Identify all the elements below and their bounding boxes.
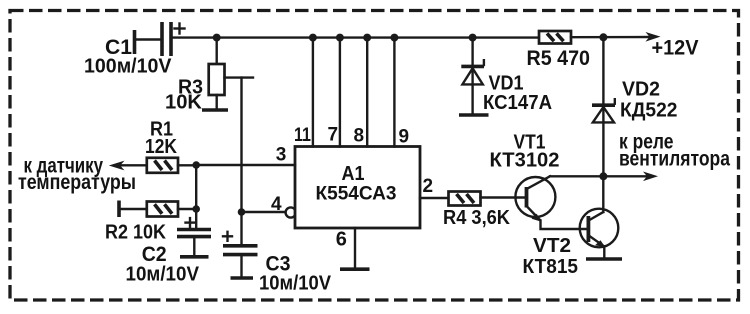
wire +12V rail right bbox=[571, 36, 649, 39]
node rail pin11 bbox=[309, 34, 317, 42]
label к реле вентилятора bbox=[619, 130, 730, 170]
svg-text:A1: A1 bbox=[342, 163, 365, 185]
node R2/C2 junction bbox=[192, 205, 200, 213]
transistor VT1 bbox=[515, 176, 555, 222]
svg-text:+12V: +12V bbox=[652, 37, 699, 60]
zener VD1 bbox=[461, 38, 484, 114]
svg-text:КС147А: КС147А bbox=[483, 92, 552, 114]
node pin4/C3 junction bbox=[238, 208, 246, 216]
capacitor C3 bbox=[223, 212, 258, 276]
svg-text:100м/10V: 100м/10V bbox=[84, 56, 172, 78]
R3 ground bbox=[202, 108, 228, 112]
pin 4 inversion circle bbox=[286, 207, 296, 217]
wire output line (collectors to relay) bbox=[550, 175, 649, 177]
node VD2/VT2 collector/output bbox=[599, 172, 607, 180]
pin 6 wire bbox=[354, 228, 356, 268]
C2 ground bbox=[180, 255, 209, 259]
resistor R3 bbox=[209, 38, 225, 109]
node rail pin9 bbox=[390, 34, 398, 42]
wire R4 to VT1 base bbox=[481, 196, 526, 198]
wire VT1 emitter to VT2 base bbox=[541, 221, 588, 230]
relay arrow bbox=[643, 172, 658, 182]
svg-text:температуры: температуры bbox=[18, 171, 136, 194]
resistor R5 bbox=[539, 31, 571, 44]
svg-text:R5 470: R5 470 bbox=[527, 47, 591, 70]
wire R3 tap to pin 4 bbox=[225, 78, 254, 212]
pin 11 wire bbox=[312, 38, 314, 147]
diode VD2 bbox=[592, 37, 615, 176]
node rail/C1/R3 bbox=[213, 34, 221, 42]
capacitor C2 bbox=[177, 209, 211, 255]
svg-text:11: 11 bbox=[294, 125, 311, 146]
VD1 ground bbox=[459, 113, 489, 117]
node rail/R5/VD2 bbox=[599, 33, 607, 41]
svg-text:4: 4 bbox=[271, 194, 282, 215]
svg-text:12K: 12K bbox=[145, 136, 177, 158]
node rail pin8 bbox=[363, 34, 371, 42]
svg-text:9: 9 bbox=[399, 127, 410, 148]
resistor R4 bbox=[449, 192, 481, 206]
transistor VT2 bbox=[580, 176, 619, 257]
comparator A1 bbox=[295, 147, 420, 229]
svg-text:R2 10K: R2 10K bbox=[105, 222, 167, 244]
wire pin 3 bbox=[196, 164, 295, 166]
C3 ground bbox=[231, 276, 254, 280]
svg-text:R4 3,6K: R4 3,6K bbox=[443, 207, 511, 229]
svg-text:3: 3 bbox=[276, 145, 287, 166]
capacitor C1 bbox=[135, 22, 185, 56]
svg-text:К554СА3: К554СА3 bbox=[316, 184, 397, 205]
A1 ground bbox=[340, 267, 370, 271]
pin 8 wire bbox=[366, 38, 368, 147]
svg-text:вентилятора: вентилятора bbox=[619, 147, 730, 170]
+12V arrow bbox=[646, 32, 661, 42]
svg-text:10м/10V: 10м/10V bbox=[126, 264, 200, 286]
svg-text:КД522: КД522 bbox=[620, 100, 678, 122]
svg-text:8: 8 bbox=[354, 126, 365, 147]
node R1/pin3 junction bbox=[192, 161, 200, 169]
svg-text:2: 2 bbox=[423, 176, 434, 197]
node rail pin7 bbox=[336, 34, 344, 42]
VT2 ground bbox=[586, 257, 622, 261]
svg-text:10K: 10K bbox=[165, 92, 203, 114]
pin 7 wire bbox=[339, 38, 341, 147]
svg-text:VT2: VT2 bbox=[533, 235, 571, 257]
svg-text:7: 7 bbox=[328, 125, 339, 146]
wire pin 2 bbox=[420, 197, 449, 199]
wire +12V rail left bbox=[171, 36, 539, 38]
svg-text:6: 6 bbox=[336, 229, 347, 251]
svg-text:КТ815: КТ815 bbox=[523, 256, 579, 278]
svg-text:VD2: VD2 bbox=[622, 79, 660, 101]
pin 9 wire bbox=[393, 38, 395, 147]
svg-text:10м/10V: 10м/10V bbox=[259, 273, 332, 295]
node rail/VD1 bbox=[469, 34, 477, 42]
wire pin 4 bbox=[242, 211, 286, 213]
resistor R1 bbox=[147, 158, 196, 173]
wire R1 junction to R2 junction bbox=[195, 165, 197, 209]
label к датчику температуры bbox=[18, 154, 136, 194]
svg-text:КТ3102: КТ3102 bbox=[490, 150, 560, 172]
resistor R2 bbox=[119, 201, 196, 218]
sensor arrow bbox=[109, 161, 147, 171]
